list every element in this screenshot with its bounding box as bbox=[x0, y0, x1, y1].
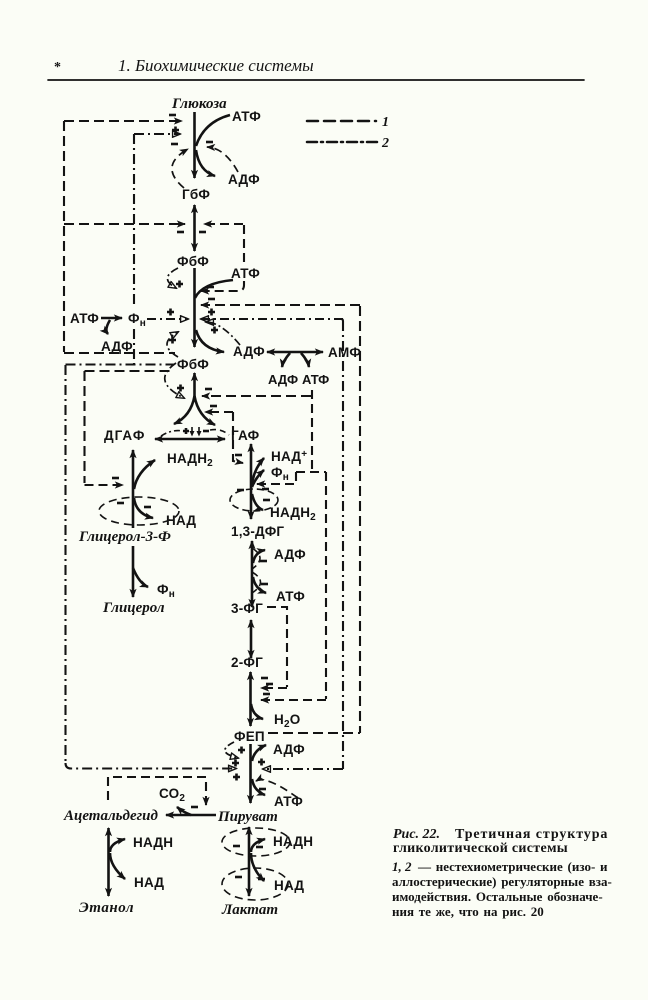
svg-text:АТФ: АТФ bbox=[70, 311, 99, 326]
wire pyruvate kinase vertical bbox=[249, 744, 252, 803]
svg-text:ФбФ: ФбФ bbox=[177, 254, 209, 269]
svg-text:3-ФГ: 3-ФГ bbox=[231, 601, 263, 616]
wire dashed inhibition arrow y484 bbox=[257, 483, 294, 485]
wire triose isomerase double arrow bbox=[155, 438, 225, 441]
wire dashed feedback from ADP right arc bbox=[207, 147, 238, 172]
svg-text:1. Биохимические системы: 1. Биохимические системы bbox=[118, 56, 314, 75]
wire dashed inhibition into hexokinase bbox=[64, 120, 182, 122]
svg-text:АМФ: АМФ bbox=[328, 345, 361, 360]
wire dashed vertical x233 bbox=[233, 412, 243, 463]
sign minus bbox=[259, 788, 266, 791]
svg-text:1, 2: 1, 2 bbox=[392, 859, 412, 874]
sign plus bbox=[232, 760, 239, 767]
svg-text:АТФ: АТФ bbox=[302, 372, 329, 387]
sign plus bbox=[172, 127, 179, 134]
svg-text:ДГАФ: ДГАФ bbox=[104, 428, 145, 443]
wire PFK vertical bbox=[193, 268, 196, 347]
sign minus bbox=[263, 499, 270, 502]
wire dashed inhibition y305 from right bbox=[201, 304, 360, 306]
wire PGK vertical bbox=[251, 541, 254, 607]
svg-text:Рис. 22.: Рис. 22. bbox=[393, 827, 440, 842]
svg-text:— нестехиометрические (изо- и: — нестехиометрические (изо- и bbox=[417, 859, 608, 874]
wire adenylate kinase double arrow bbox=[267, 351, 323, 354]
sign minus bbox=[112, 477, 119, 480]
wire dash-dot horizontal y364 bbox=[66, 363, 175, 365]
wire ATP input curve hexokinase bbox=[196, 115, 230, 146]
wire dashed vertical x84 bbox=[83, 371, 85, 483]
wire dashed corner x296 down bbox=[295, 472, 297, 483]
sign minus bbox=[169, 114, 176, 117]
wire H2O output curve bbox=[251, 704, 263, 719]
svg-text:Третичная структура: Третичная структура bbox=[455, 827, 608, 842]
wire aldolase split right bbox=[195, 396, 216, 425]
legend dashed line 1 bbox=[307, 120, 376, 123]
svg-text:Глюкоза: Глюкоза bbox=[171, 96, 227, 112]
sign minus bbox=[260, 560, 267, 563]
wire ATP to Pn arrow bbox=[101, 317, 122, 320]
svg-text:СО2: СО2 bbox=[159, 786, 185, 804]
wire ATP input curve PFK bbox=[195, 280, 233, 298]
wire NAD curve LDH bbox=[251, 853, 264, 881]
svg-text:ГбФ: ГбФ bbox=[182, 187, 210, 202]
svg-text:Фн: Фн bbox=[128, 311, 146, 329]
wire dash-dot ADP feedback loop bbox=[206, 322, 240, 345]
wire dashed inhibition isomerase from left bbox=[64, 223, 185, 225]
svg-text:НАДН: НАДН bbox=[273, 834, 313, 849]
wire ADP output curve PFK bbox=[196, 330, 224, 352]
sign minus bbox=[237, 489, 244, 492]
sign minus bbox=[261, 677, 268, 680]
svg-text:АДФ: АДФ bbox=[273, 742, 305, 757]
wire enolase vertical bbox=[249, 672, 252, 726]
wire dashed vertical x360 bbox=[359, 306, 361, 733]
wire dashed vertical x312 adenylate ATP bbox=[311, 390, 313, 471]
wire dashed inhibition y396 bbox=[202, 395, 311, 397]
sign plus bbox=[258, 759, 265, 766]
sign plus bbox=[177, 385, 184, 392]
wire glucose to G6P bbox=[193, 112, 196, 178]
tiny arrow down 1 bbox=[191, 427, 193, 432]
wire dashed feedback from G6P left arc bbox=[172, 149, 188, 188]
wire glycerol-3-P to glycerol bbox=[132, 546, 135, 597]
svg-text:НАДН: НАДН bbox=[133, 835, 173, 850]
sign minus bbox=[266, 683, 273, 686]
svg-text:Н2О: Н2О bbox=[274, 712, 300, 730]
wire dashed horizontal y353 bbox=[64, 352, 175, 354]
svg-text:аллостерические) регуляторные: аллостерические) регуляторные вза- bbox=[392, 874, 612, 889]
wire dashed vertical x326 long bbox=[325, 472, 327, 699]
sign minus bbox=[117, 502, 124, 505]
sign minus bbox=[256, 846, 263, 849]
svg-text:НАД: НАД bbox=[274, 878, 304, 893]
sign minus bbox=[144, 506, 151, 509]
sign minus bbox=[263, 693, 270, 696]
svg-text:НАД: НАД bbox=[134, 875, 164, 890]
sign minus bbox=[203, 430, 209, 433]
svg-text:АДФ: АДФ bbox=[268, 372, 298, 387]
sign minus bbox=[262, 488, 269, 491]
wire dashed ellipse GAPDH bbox=[230, 489, 278, 511]
sign minus bbox=[210, 405, 217, 408]
svg-text:*: * bbox=[54, 60, 61, 75]
wire ADP output curve hexokinase bbox=[196, 150, 215, 176]
wire dashed bracket from 3-FG bbox=[267, 607, 287, 687]
wire dash-dot mark above TIM bbox=[161, 431, 183, 436]
sign plus bbox=[208, 309, 215, 316]
wire dash-dot vertical x134 lower bbox=[133, 329, 135, 364]
wire NAD output curve ethanol bbox=[110, 853, 125, 879]
wire ATP curve PK bbox=[252, 779, 265, 795]
svg-text:Глицерол: Глицерол bbox=[102, 600, 165, 616]
wire dash-dot corner x343 top bbox=[341, 319, 343, 321]
wire NADH2 output curve glycerol dehydrogenase bbox=[134, 460, 155, 489]
svg-text:ния те же, что на рис. 20: ния те же, что на рис. 20 bbox=[392, 904, 544, 919]
wire curve to ADP left group bbox=[106, 320, 110, 334]
wire dashed ATP feedback arc PK bbox=[256, 780, 298, 798]
svg-text:имодействия. Остальные обозна: имодействия. Остальные обозначе- bbox=[392, 889, 603, 904]
svg-text:Фн: Фн bbox=[157, 582, 175, 600]
wire dashed mark above TIM right bbox=[210, 430, 229, 435]
sign minus bbox=[199, 231, 206, 234]
sign minus bbox=[191, 806, 198, 809]
svg-text:АДФ: АДФ bbox=[101, 339, 133, 354]
wire NAD output curve bbox=[134, 498, 153, 518]
svg-text:АТФ: АТФ bbox=[231, 266, 260, 281]
svg-text:2-ФГ: 2-ФГ bbox=[231, 655, 263, 670]
svg-text:ФЕП: ФЕП bbox=[234, 729, 265, 744]
wire dashed inhibition into glycerol DH bbox=[85, 484, 124, 486]
svg-text:Ацетальдегид: Ацетальдегид bbox=[63, 808, 159, 824]
wire dash-dot long horizontal right part y769 bbox=[263, 768, 343, 770]
wire ADP curve PK bbox=[252, 745, 266, 761]
svg-text:НАД: НАД bbox=[166, 513, 196, 528]
wire curve to ADP product bbox=[282, 353, 290, 367]
wire dash-dot vertical left x65.5 bbox=[64, 365, 66, 763]
svg-text:НАДН2: НАДН2 bbox=[167, 451, 213, 469]
sign minus bbox=[205, 388, 212, 391]
svg-text:1,3-ДФГ: 1,3-ДФГ bbox=[231, 524, 284, 539]
wire dashed feedback bracket acetaldehyde bbox=[108, 777, 206, 805]
svg-text:АТФ: АТФ bbox=[276, 589, 305, 604]
sign minus bbox=[258, 878, 265, 881]
wire NADH2 output curve GAPDH bbox=[252, 494, 263, 510]
wire NAD+ input curve bbox=[252, 458, 264, 484]
wire ATP curve PGK bbox=[253, 577, 266, 593]
svg-text:1: 1 bbox=[382, 115, 389, 130]
sign plus bbox=[211, 327, 218, 334]
wire Pn output curve bbox=[133, 568, 148, 587]
wire dash-dot self loop F6P plus bbox=[167, 268, 178, 288]
svg-text:АДФ: АДФ bbox=[233, 344, 265, 359]
svg-text:НАД+: НАД+ bbox=[271, 449, 307, 464]
sign plus bbox=[176, 281, 183, 288]
wire dash-dot PEP loop into PK bbox=[225, 742, 238, 758]
sign plus bbox=[167, 309, 174, 316]
wire G6P to F6P double arrow bbox=[193, 205, 196, 251]
wire dashed horizontal y472 bbox=[296, 471, 326, 473]
wire dashed arrow into enolase y700 from x326 bbox=[261, 699, 326, 701]
wire dash-dot lower-left loop into PFK bbox=[167, 332, 178, 357]
svg-text:Пируват: Пируват bbox=[217, 809, 278, 825]
wire LDH vertical bbox=[248, 827, 251, 896]
sign minus bbox=[177, 231, 184, 234]
wire dash-dot activation into hexokinase bbox=[134, 133, 180, 135]
svg-text:АДФ: АДФ bbox=[274, 547, 306, 562]
sign minus bbox=[208, 298, 215, 301]
wire CO2 branch curve bbox=[177, 807, 191, 815]
wire dash-dot activation right y319 bbox=[201, 318, 343, 320]
wire dashed horizontal y371 bbox=[85, 370, 174, 372]
sign plus bbox=[183, 428, 189, 434]
wire dashed vertical x134 upper bbox=[133, 134, 135, 307]
wire curve to ATP product bbox=[301, 353, 309, 367]
svg-text:ФбФ: ФбФ bbox=[177, 357, 209, 372]
wire dash-dot corner to long horizontal y769 bbox=[66, 763, 237, 769]
svg-text:Этанол: Этанол bbox=[79, 900, 134, 916]
tiny arrow down 2 bbox=[198, 427, 200, 432]
sign minus bbox=[207, 286, 214, 289]
wire dashed arrow into enolase y688 bbox=[261, 687, 287, 689]
header rule bbox=[48, 79, 584, 81]
wire dashed PEP horizontal y733 bbox=[268, 732, 360, 734]
wire NADH curve LDH bbox=[251, 839, 265, 852]
svg-text:НАДН2: НАДН2 bbox=[270, 505, 316, 523]
wire NADH input curve ethanol bbox=[110, 839, 125, 852]
wire dash-dot Pn activation left bbox=[147, 318, 188, 320]
svg-text:Лактат: Лактат bbox=[221, 902, 278, 918]
wire dashed arc ATP loop bbox=[252, 572, 261, 593]
wire phosphoglyceromutase double arrow bbox=[250, 620, 253, 658]
wire dash-dot FDP left loop into aldolase bbox=[165, 363, 184, 398]
sign minus bbox=[233, 845, 240, 848]
wire ADP curve PGK bbox=[253, 550, 265, 563]
wire dashed inhibition isomerase from right bbox=[204, 223, 243, 225]
svg-text:гликолитической системы: гликолитической системы bbox=[393, 841, 568, 856]
wire DHAP vertical bbox=[132, 450, 135, 528]
sign minus bbox=[235, 876, 242, 879]
svg-text:Фн: Фн bbox=[271, 465, 289, 483]
wire long dashed vertical left x64 bbox=[63, 121, 65, 352]
wire dashed inhibition y412 with corner to GAPDH bbox=[205, 411, 233, 413]
svg-text:АТФ: АТФ bbox=[232, 109, 261, 124]
sign plus bbox=[233, 774, 240, 781]
svg-text:ГАФ: ГАФ bbox=[231, 428, 260, 443]
sign plus bbox=[238, 747, 245, 754]
wire pyruvate to acetaldehyde bbox=[166, 814, 216, 817]
sign minus bbox=[171, 143, 178, 146]
wire dashed ellipse glycerol DH bbox=[99, 497, 179, 525]
svg-text:Глицерол-3-Ф: Глицерол-3-Ф bbox=[78, 529, 171, 545]
wire dashed corner down to PFK bbox=[243, 225, 245, 262]
wire GAPDH vertical bbox=[250, 444, 253, 519]
wire Pn input curve bbox=[252, 470, 264, 487]
sign plus bbox=[169, 337, 176, 344]
svg-text:2: 2 bbox=[381, 136, 389, 151]
svg-text:АДФ: АДФ bbox=[228, 172, 260, 187]
wire acetaldehyde to ethanol bbox=[107, 828, 110, 896]
wire dashed ellipse LDH upper bbox=[222, 828, 290, 856]
wire aldolase split left bbox=[174, 396, 195, 424]
wire dashed arc ADP loop bbox=[252, 548, 260, 569]
wire dash-dot vertical x343 bbox=[342, 321, 344, 769]
legend dash-dot line 2 bbox=[307, 141, 378, 144]
sign minus bbox=[235, 454, 242, 457]
wire aldolase vertical up arrow bbox=[193, 373, 196, 398]
sign minus bbox=[206, 141, 213, 144]
sign minus bbox=[261, 583, 268, 586]
wire dashed ellipse LDH lower bbox=[222, 868, 288, 900]
svg-text:АТФ: АТФ bbox=[274, 794, 303, 809]
